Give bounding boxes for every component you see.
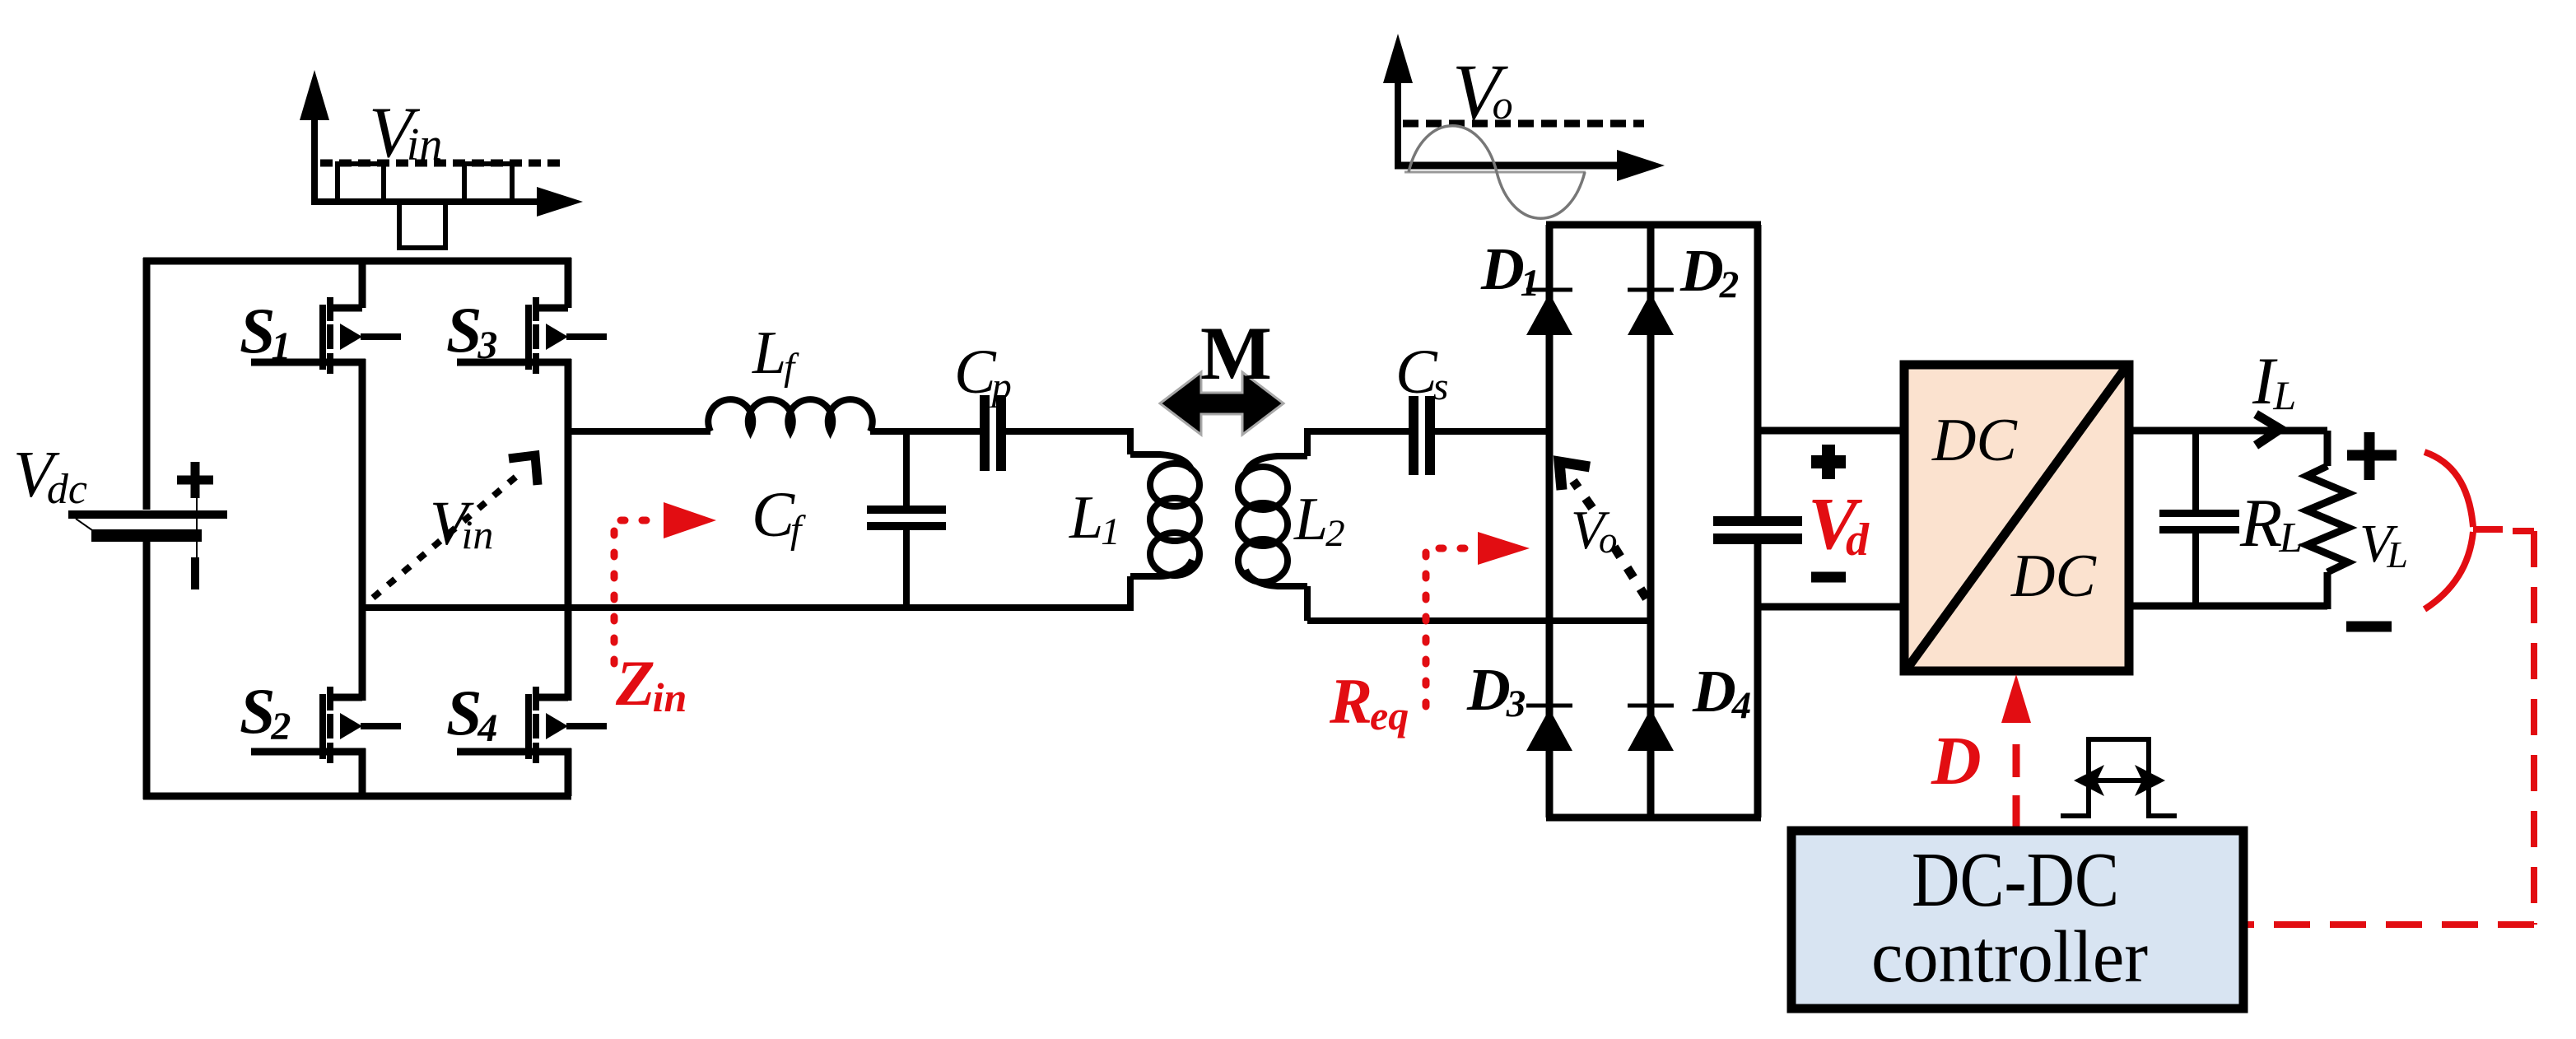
wire: rectifier to DC/DC top bbox=[1758, 427, 1904, 435]
svg-text:Lf: Lf bbox=[752, 319, 799, 389]
svg-text:Cs: Cs bbox=[1395, 338, 1448, 408]
transistor S3 bbox=[457, 297, 607, 374]
svg-text:DC: DC bbox=[1931, 407, 2018, 474]
svg-text:L2: L2 bbox=[1293, 486, 1345, 555]
capacitor Co (output filter) bbox=[2192, 431, 2199, 606]
battery Vdc: thin center line bbox=[196, 496, 198, 557]
svg-text:Vin: Vin bbox=[369, 93, 442, 173]
svg-text:S2: S2 bbox=[240, 675, 291, 748]
capacitor Cs bbox=[1409, 396, 1418, 475]
label minus (Vd) bbox=[1811, 572, 1846, 583]
transistor S2 bbox=[251, 687, 401, 763]
wire: L2 to Cs bbox=[1307, 428, 1409, 435]
waveform plot Vo: dashed level bbox=[1403, 120, 1644, 128]
wire: left bridge leg segments bbox=[359, 258, 366, 796]
DC/DC converter block bbox=[1904, 365, 2129, 671]
annotation Zin dashed arrow bbox=[614, 520, 659, 664]
svg-text:D4: D4 bbox=[1692, 658, 1751, 727]
mutual inductance arrow M bbox=[1160, 372, 1283, 435]
battery Vdc: negative plate bbox=[91, 529, 202, 542]
svg-text:Req: Req bbox=[1329, 665, 1409, 738]
inductor Lf bbox=[708, 399, 873, 431]
wire: inverter top rail bbox=[143, 258, 571, 265]
svg-text:Cf: Cf bbox=[752, 478, 806, 552]
label plus (VL) bbox=[2347, 432, 2397, 480]
svg-text:M: M bbox=[1200, 311, 1272, 395]
arrow IL on wire bbox=[2256, 414, 2280, 445]
annotation Vo dashed arrow (rectifier input) bbox=[1573, 481, 1647, 599]
svg-text:DC-DC: DC-DC bbox=[1912, 837, 2119, 923]
annotation: red dashed feedback path bbox=[2248, 531, 2534, 925]
rectifier: top rail bbox=[1546, 221, 1761, 229]
wire: inverter bottom rail bbox=[143, 793, 571, 800]
diode D4 bbox=[1628, 706, 1674, 751]
diode D3 bbox=[1526, 706, 1572, 751]
waveform plot Vin: dashed reference level bbox=[320, 160, 562, 167]
capacitor Cp bbox=[980, 395, 990, 471]
svg-text:S3: S3 bbox=[446, 294, 497, 367]
annotation: red measurement arc bbox=[2425, 452, 2473, 609]
svg-text:D2: D2 bbox=[1679, 237, 1739, 306]
wire: right bridge leg segments bbox=[565, 258, 572, 796]
capacitor Cd (dc-link) bbox=[1713, 516, 1802, 526]
inductor L1 bbox=[1130, 428, 1192, 611]
svg-text:Cp: Cp bbox=[954, 338, 1012, 408]
rectifier: right bus bbox=[1754, 225, 1762, 818]
wire: Lf to junction and Cp bbox=[870, 428, 980, 435]
waveform plot Vo: sine wave bbox=[1409, 126, 1585, 219]
label Vdc leader line bbox=[76, 519, 92, 530]
wire: node B output wire to Lf bbox=[568, 428, 710, 435]
svg-text:Vo: Vo bbox=[1571, 500, 1617, 561]
wire: secondary lower rail to rectifier mid leg bbox=[1307, 617, 1651, 624]
svg-text:L1: L1 bbox=[1069, 484, 1120, 553]
svg-text:S4: S4 bbox=[446, 677, 497, 750]
wire: Cs to rectifier bbox=[1435, 428, 1549, 435]
svg-text:Zin: Zin bbox=[615, 647, 687, 720]
inductor L2 bbox=[1246, 428, 1307, 621]
wire: source left vertical upper bbox=[143, 258, 151, 510]
waveform plot Vin: horizontal axis bbox=[311, 198, 542, 205]
battery Vdc: positive plate bbox=[68, 510, 227, 519]
svg-text:D3: D3 bbox=[1466, 656, 1526, 725]
label plus (Vd) bbox=[1811, 445, 1846, 479]
wire: source left vertical lower bbox=[143, 542, 151, 799]
waveform plot Vo: vertical axis bbox=[1395, 48, 1401, 166]
svg-text:DC: DC bbox=[2010, 543, 2097, 610]
waveform plot Vo: gray baseline bbox=[1404, 171, 1586, 174]
wire: DC/DC output top bbox=[2129, 431, 2327, 466]
PWM duty symbol bbox=[2061, 739, 2177, 816]
battery Vdc: plus sign bbox=[177, 462, 213, 498]
svg-text:Vd: Vd bbox=[1808, 483, 1870, 566]
waveform plot Vin: square wave bbox=[338, 164, 512, 248]
label minus (VL) bbox=[2346, 622, 2392, 632]
rectifier: bottom rail bbox=[1546, 814, 1761, 822]
battery Vdc: minus bar bbox=[191, 557, 199, 589]
svg-text:D: D bbox=[1931, 723, 1982, 799]
wire: rectifier to DC/DC bottom bbox=[1758, 603, 1904, 611]
svg-text:Vdc: Vdc bbox=[13, 439, 87, 513]
DC-DC controller block bbox=[1791, 831, 2243, 1009]
svg-text:S1: S1 bbox=[240, 295, 291, 368]
transistor S4 bbox=[457, 687, 607, 763]
svg-text:VL: VL bbox=[2359, 514, 2408, 575]
annotation: red dashed D arrow bbox=[2013, 728, 2020, 828]
capacitor Cf shunt branch bbox=[903, 428, 910, 506]
wire: DC/DC output bottom bbox=[2129, 572, 2327, 609]
diode D1 bbox=[1526, 290, 1572, 335]
svg-text:RL: RL bbox=[2239, 485, 2303, 561]
svg-text:Vo: Vo bbox=[1452, 48, 1513, 136]
rectifier: middle leg bbox=[1647, 225, 1655, 818]
annotation arrow Vin (dashed diagonal) bbox=[373, 476, 517, 598]
waveform plot Vin: vertical axis bbox=[311, 84, 318, 202]
resistor RL bbox=[2307, 466, 2348, 572]
annotation Req dashed arrow bbox=[1426, 548, 1474, 706]
svg-text:Vin: Vin bbox=[430, 489, 493, 558]
svg-text:D1: D1 bbox=[1480, 235, 1540, 305]
rectifier: left leg bbox=[1546, 225, 1554, 818]
svg-text:controller: controller bbox=[1871, 916, 2148, 998]
wire: node A lower rail to L1 bbox=[362, 604, 1130, 611]
svg-text:IL: IL bbox=[2252, 343, 2296, 418]
transistor S1 bbox=[251, 297, 401, 374]
diode D2 bbox=[1628, 290, 1674, 335]
wire: Cp to L1 bbox=[1006, 428, 1130, 435]
waveform plot Vo: horizontal axis bbox=[1395, 162, 1622, 170]
